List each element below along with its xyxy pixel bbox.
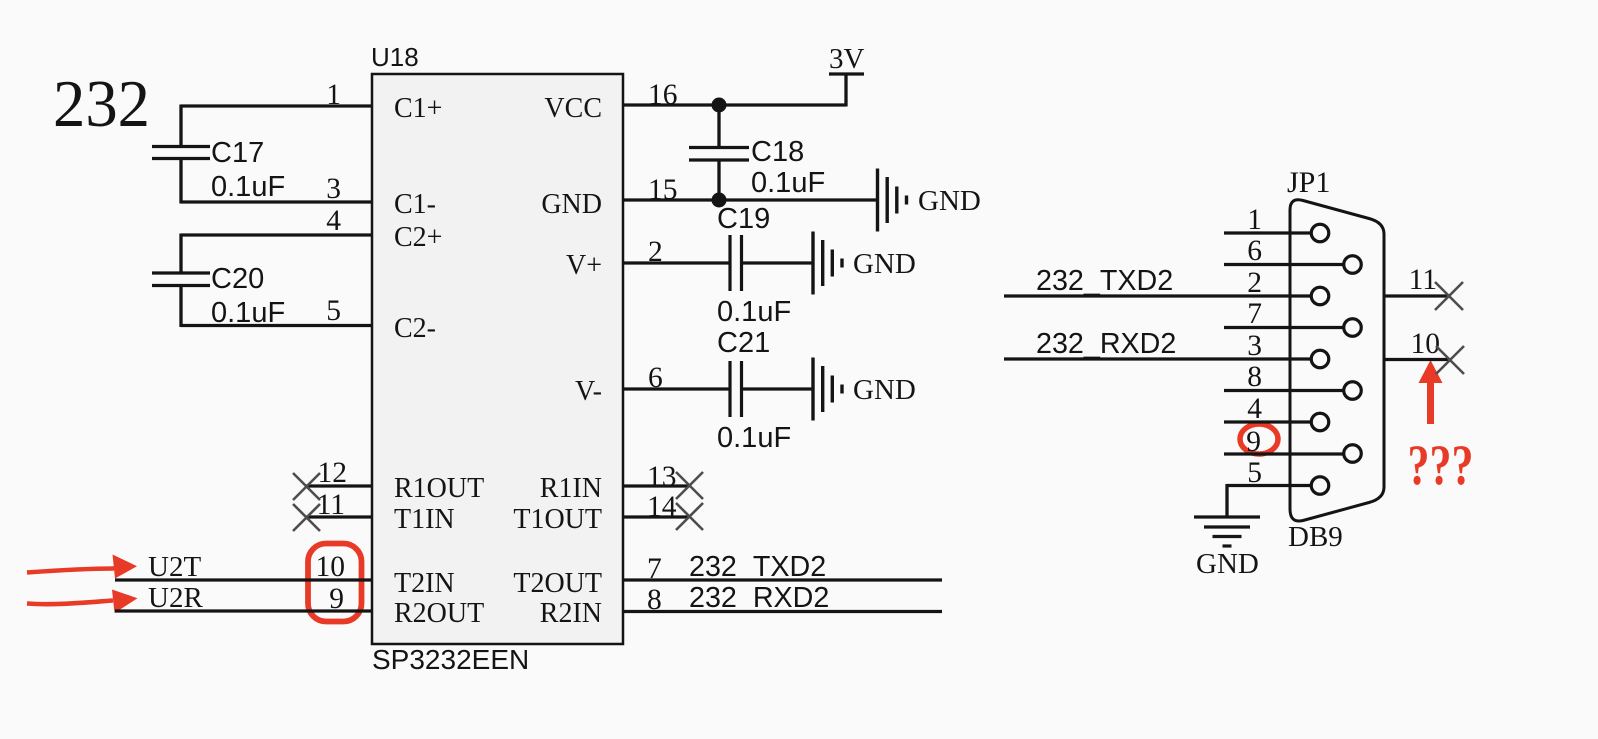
wire pin11 stub [306, 515, 372, 518]
svg-text:JP1: JP1 [1287, 166, 1330, 199]
wire pin2 to C19 [623, 261, 730, 264]
ground GND at C21 [813, 358, 842, 421]
capacitor C18 [689, 148, 749, 161]
wire pin4 [181, 233, 372, 236]
DB9 pin 1 circle [1311, 224, 1329, 242]
svg-text:4: 4 [326, 205, 341, 237]
junction dot at GND pin 15 [712, 193, 727, 208]
svg-text:T1OUT: T1OUT [513, 504, 602, 535]
wire U2T to pin10 [115, 578, 372, 581]
svg-text:U2R: U2R [148, 582, 203, 614]
wire pin8 net 232_RXD2 [623, 610, 942, 613]
svg-text:R2IN: R2IN [540, 598, 602, 629]
svg-text:5: 5 [1247, 457, 1262, 489]
svg-text:T1IN: T1IN [394, 504, 455, 535]
svg-text:T2OUT: T2OUT [513, 568, 602, 599]
svg-text:DB9: DB9 [1288, 521, 1343, 553]
capacitor C17 [152, 147, 210, 159]
svg-text:0.1uF: 0.1uF [211, 171, 285, 203]
svg-text:C2+: C2+ [394, 222, 442, 253]
svg-text:V+: V+ [566, 250, 602, 281]
annotation red rounded box around pins 10 and 9 [308, 544, 362, 622]
svg-text:C1+: C1+ [394, 93, 442, 124]
wire C17 bottom lead [179, 159, 182, 204]
svg-text:12: 12 [318, 457, 348, 489]
wire U2R to pin9 [115, 609, 372, 612]
svg-text:10: 10 [1411, 328, 1441, 360]
wire pin3 [181, 200, 372, 203]
svg-text:C2-: C2- [394, 313, 436, 344]
svg-text:R2OUT: R2OUT [394, 598, 484, 629]
wire C17 top lead [179, 105, 182, 147]
svg-text:13: 13 [647, 461, 677, 493]
capacitor C20 [152, 273, 210, 286]
annotation red ellipse around DB9 pin 9 [1240, 424, 1278, 454]
wire pin7 net 232_TXD2 [623, 578, 942, 581]
svg-text:0.1uF: 0.1uF [717, 296, 791, 328]
junction dot at VCC [712, 98, 727, 113]
DB9 pin 8 circle [1344, 382, 1362, 400]
DB9 pin 6 circle [1344, 256, 1362, 274]
svg-text:0.1uF: 0.1uF [211, 297, 285, 329]
wire DB9 pin8 [1224, 389, 1344, 392]
svg-text:C19: C19 [717, 203, 770, 235]
ground GND at pin15 [878, 169, 907, 232]
svg-text:6: 6 [1247, 235, 1262, 267]
wire pin14 stub [623, 515, 689, 518]
DB9 pin 4 circle [1311, 413, 1329, 431]
wire 232_TXD2 to DB9 pin2 [1004, 294, 1311, 297]
X no-connect pin11 [293, 504, 320, 531]
svg-text:8: 8 [1247, 361, 1262, 393]
svg-text:C1-: C1- [394, 189, 436, 220]
DB9 pin 5 circle [1311, 477, 1329, 495]
svg-text:C17: C17 [211, 137, 264, 169]
svg-text:GND: GND [918, 185, 981, 217]
svg-text:SP3232EEN: SP3232EEN [372, 644, 529, 675]
wire pin1 [181, 104, 372, 107]
svg-text:232_RXD2: 232_RXD2 [689, 582, 829, 614]
wire C18 bottom lead [717, 160, 720, 200]
svg-text:???: ??? [1408, 434, 1474, 497]
wire pin16 to 3V [623, 103, 846, 106]
wire pin12 stub [306, 484, 372, 487]
X no-connect DB9 pin11 [1435, 282, 1463, 310]
annotation red arrow at U2T [27, 569, 114, 573]
DB9 pin 2 circle [1311, 287, 1329, 305]
svg-text:C21: C21 [717, 327, 770, 359]
wire DB9 right pin11 [1384, 294, 1449, 297]
svg-text:2: 2 [1247, 267, 1262, 299]
wire DB9 pin4 [1224, 420, 1311, 423]
DB9 pin 3 circle [1311, 350, 1329, 368]
wire DB9 pin6 [1224, 263, 1344, 266]
wire DB9 pin1 [1224, 231, 1311, 234]
svg-text:VCC: VCC [544, 93, 602, 124]
svg-text:R1OUT: R1OUT [394, 473, 484, 504]
wire 3V riser [844, 74, 847, 107]
svg-text:T2IN: T2IN [394, 568, 455, 599]
connector JP1 DB9 outline [1290, 200, 1384, 521]
svg-text:10: 10 [316, 551, 346, 583]
capacitor C19 [730, 235, 742, 291]
svg-text:U2T: U2T [148, 551, 201, 583]
wire DB9 pin9 [1224, 452, 1344, 455]
wire C18 top lead [717, 105, 720, 148]
wire C20 top lead [179, 234, 182, 274]
wire pin15 to GND [623, 198, 878, 201]
ground GND at C19 [813, 232, 842, 295]
svg-text:0.1uF: 0.1uF [717, 422, 791, 454]
power 3V [829, 72, 864, 75]
X no-connect pin13 [676, 472, 703, 499]
svg-text:232_RXD2: 232_RXD2 [1036, 328, 1176, 360]
X no-connect DB9 pin10 [1436, 346, 1464, 374]
DB9 pin 7 circle [1344, 319, 1362, 337]
svg-text:11: 11 [1409, 264, 1437, 296]
svg-text:R1IN: R1IN [540, 473, 602, 504]
svg-text:3: 3 [326, 173, 341, 205]
annotation red arrow at U2R [27, 601, 113, 605]
svg-text:232_TXD2: 232_TXD2 [1036, 265, 1173, 297]
svg-text:U18: U18 [371, 42, 419, 72]
X no-connect pin12 [293, 473, 320, 500]
wire DB9 pin5 [1227, 484, 1311, 487]
op-amp U18 body [372, 74, 623, 644]
wire C21 to GND [742, 387, 814, 390]
svg-text:3: 3 [1247, 330, 1262, 362]
svg-text:3V: 3V [829, 43, 865, 75]
wire DB9 pin5 drop to ground [1225, 484, 1228, 517]
wire DB9 right pin10 [1384, 358, 1450, 361]
X no-connect pin14 [676, 503, 703, 530]
svg-text:7: 7 [1247, 298, 1262, 330]
svg-text:9: 9 [1246, 426, 1261, 458]
DB9 pin 9 circle [1344, 445, 1362, 463]
svg-text:C20: C20 [211, 263, 264, 295]
svg-text:GND: GND [853, 248, 916, 280]
svg-text:GND: GND [853, 374, 916, 406]
wire pin13 stub [623, 484, 689, 487]
svg-text:GND: GND [1196, 548, 1259, 580]
wire pin6 to C21 [623, 387, 730, 390]
wire DB9 pin7 [1224, 326, 1344, 329]
wire C19 to GND [742, 261, 814, 264]
svg-text:0.1uF: 0.1uF [751, 167, 825, 199]
annotation red up arrow [1419, 360, 1443, 424]
capacitor C21 [730, 361, 742, 417]
wire C20 bottom lead [179, 286, 182, 328]
svg-text:232_TXD2: 232_TXD2 [689, 551, 826, 583]
wire pin5 [181, 324, 372, 327]
svg-text:GND: GND [541, 189, 602, 220]
wire 232_RXD2 to DB9 pin3 [1004, 357, 1311, 360]
svg-text:V-: V- [575, 376, 602, 407]
ground earth GND under DB9 pin5 [1194, 517, 1260, 546]
svg-text:4: 4 [1247, 393, 1262, 425]
svg-text:5: 5 [326, 295, 341, 327]
svg-text:C18: C18 [751, 136, 804, 168]
svg-text:232: 232 [53, 67, 150, 141]
svg-text:1: 1 [1247, 204, 1262, 236]
